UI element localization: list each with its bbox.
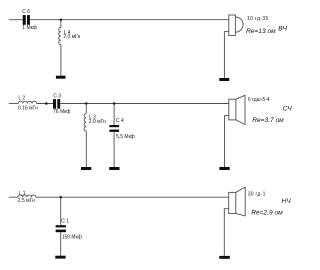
speaker BA4 (tweeter) [229, 15, 243, 36]
capacitor C1 [56, 197, 66, 256]
ground [219, 256, 230, 259]
svg-text:2.5 мГн: 2.5 мГн [18, 198, 35, 204]
svg-text:10 гд-35: 10 гд-35 [247, 16, 269, 22]
svg-text:НЧ: НЧ [282, 198, 292, 205]
svg-text:СЧ: СЧ [283, 105, 292, 112]
speaker BA1 (woofer) [229, 187, 246, 216]
svg-text:С 6: С 6 [22, 9, 30, 15]
svg-text:76 Мкф: 76 Мкф [53, 109, 70, 115]
ground [81, 167, 91, 170]
svg-text:L 2: L 2 [18, 96, 25, 102]
wire (woofer return) [224, 209, 228, 256]
svg-text:5,5 Мкф: 5,5 Мкф [116, 134, 135, 140]
svg-text:30 гд-1: 30 гд-1 [248, 191, 266, 197]
svg-text:6 гдш-5-4: 6 гдш-5-4 [248, 97, 270, 103]
node [113, 102, 116, 105]
capacitor C3 [53, 99, 60, 109]
node [59, 196, 62, 199]
node (junction dot) [60, 18, 63, 21]
svg-text:150 Мкф: 150 Мкф [62, 235, 82, 241]
inductor L3 [84, 104, 86, 168]
svg-text:Rе=13 ом: Rе=13 ом [246, 28, 276, 35]
wire (tweeter return) [224, 32, 228, 78]
ground [219, 167, 229, 170]
wire [9, 196, 18, 198]
capacitor C6 [23, 15, 30, 25]
capacitor C4 [109, 104, 119, 168]
wire [60, 103, 229, 105]
node [45, 102, 48, 105]
node [85, 102, 88, 105]
svg-text:С 4: С 4 [116, 118, 124, 124]
svg-text:С 3: С 3 [53, 93, 61, 99]
inductor L2 [18, 101, 36, 103]
wire (mid return) [225, 116, 229, 167]
wire [30, 19, 229, 21]
wire [9, 19, 23, 21]
svg-text:1 Мкф: 1 Мкф [22, 25, 37, 31]
svg-text:2.0 мГн: 2.0 мГн [63, 34, 80, 40]
svg-text:2.0 мГн: 2.0 мГн [89, 119, 106, 125]
wire [37, 103, 53, 105]
inductor L1 [18, 195, 36, 197]
ground [219, 78, 229, 81]
svg-text:L 1: L 1 [19, 191, 26, 197]
svg-text:Rе=3.7 ом: Rе=3.7 ом [252, 117, 284, 124]
svg-text:Rе=2.9 ом: Rе=2.9 ом [251, 210, 283, 217]
ground [109, 167, 119, 170]
speaker BA2 (midrange) [229, 95, 245, 124]
ground [56, 76, 66, 79]
wire [36, 196, 229, 198]
inductor L4 [59, 20, 61, 76]
svg-text:С 1: С 1 [61, 219, 69, 225]
svg-text:ВЧ: ВЧ [278, 25, 287, 32]
svg-text:0.16 мГн: 0.16 мГн [18, 106, 38, 112]
ground [55, 256, 65, 259]
wire [9, 103, 18, 105]
